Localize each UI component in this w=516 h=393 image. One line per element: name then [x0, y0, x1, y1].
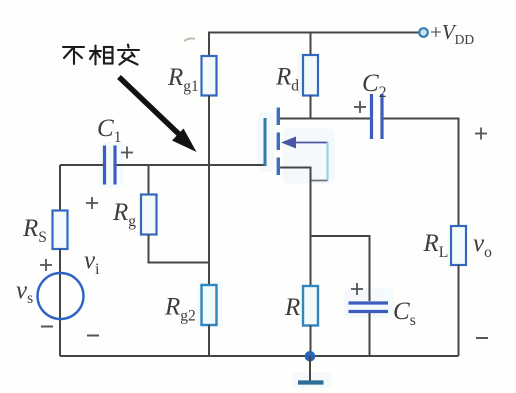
wire Rd top [310, 33, 312, 56]
capacitor C1 [105, 146, 116, 185]
resistor Rd [303, 55, 318, 96]
minus vo [476, 337, 488, 339]
source vs (circle) [38, 273, 84, 319]
glyph 交 [127, 45, 130, 48]
transistor Q1 channel source segment [277, 158, 280, 176]
wire top supply rail [209, 33, 419, 57]
wire drain node to C2 left plate [280, 118, 370, 120]
svg-text:RL: RL [423, 230, 449, 261]
svg-text:R: R [284, 294, 300, 321]
resistor Rg1 [202, 56, 217, 96]
wire source tap [280, 168, 311, 237]
svg-text:vo: vo [473, 230, 492, 261]
svg-text:Rg: Rg [112, 199, 136, 230]
svg-text:Rd: Rd [275, 64, 299, 95]
plus Cs [351, 283, 363, 295]
wire RL bottom to ground rail [458, 265, 460, 356]
glyph 相 [90, 50, 101, 52]
wire R bottom to rail [310, 326, 312, 357]
junction dot [305, 351, 316, 362]
wire Rg1 bottom to Rg2 top (vertical bias line) [208, 96, 210, 286]
wire Rg2 bottom to ground rail [208, 325, 210, 356]
transistor Q1 channel drain segment [277, 108, 280, 126]
svg-text:Cs: Cs [393, 298, 416, 329]
wire gate node down to Rg [148, 165, 150, 195]
wire source node down to R [310, 236, 312, 286]
wire source node branch to Cs [311, 236, 370, 301]
wire C1 right plate to gate (crosses bias line, no dot) [117, 164, 266, 166]
svg-text:RS: RS [22, 215, 47, 246]
wire C2 right plate to RL top [384, 119, 459, 227]
wire Cs bottom to rail [369, 313, 371, 356]
svg-text:vs: vs [16, 277, 33, 307]
scan artifact [184, 38, 195, 41]
annotation arrow [119, 77, 197, 152]
transistor Q1 channel body segment [277, 133, 280, 151]
svg-text:+VDD: +VDD [430, 20, 474, 47]
wire Rg bottom to bias line [149, 235, 210, 263]
glyph 不 [63, 46, 84, 48]
plus C2 [354, 101, 366, 113]
minus vi [87, 335, 99, 337]
capacitor C2 [372, 94, 383, 139]
svg-text:vi: vi [84, 247, 100, 278]
wire bottom ground rail [60, 355, 459, 357]
svg-text:Rg1: Rg1 [167, 64, 199, 95]
ground [298, 356, 324, 383]
scan halo patches [99, 54, 394, 388]
capacitor Cs [349, 303, 389, 312]
resistor Rg [141, 195, 157, 235]
plus vi [86, 197, 98, 209]
wire body loop to source [311, 180, 328, 182]
svg-text:Rg2: Rg2 [164, 294, 196, 325]
transistor Q1 body arrow [281, 137, 328, 149]
plus C1 [121, 147, 133, 159]
resistor R [303, 286, 318, 326]
terminal +VDD [419, 28, 428, 37]
resistor RS [53, 211, 68, 250]
plus vo [475, 128, 487, 140]
wire body loop down (light) [326, 143, 328, 181]
resistor RL [451, 226, 466, 265]
transistor Q1 gate bar [264, 118, 267, 166]
wire RS bottom through source to ground rail [59, 249, 61, 356]
minus vs [41, 326, 53, 328]
annotation 不相交 (drawn glyphs) [63, 45, 139, 65]
svg-text:C1: C1 [97, 115, 121, 146]
svg-text:C2: C2 [362, 70, 386, 101]
wire left input column top [59, 165, 61, 211]
plus vs [40, 259, 52, 271]
resistor Rg2 [202, 285, 217, 325]
wire Rd bottom to drain node [310, 96, 312, 119]
wire input node to C1 left plate [60, 164, 103, 166]
